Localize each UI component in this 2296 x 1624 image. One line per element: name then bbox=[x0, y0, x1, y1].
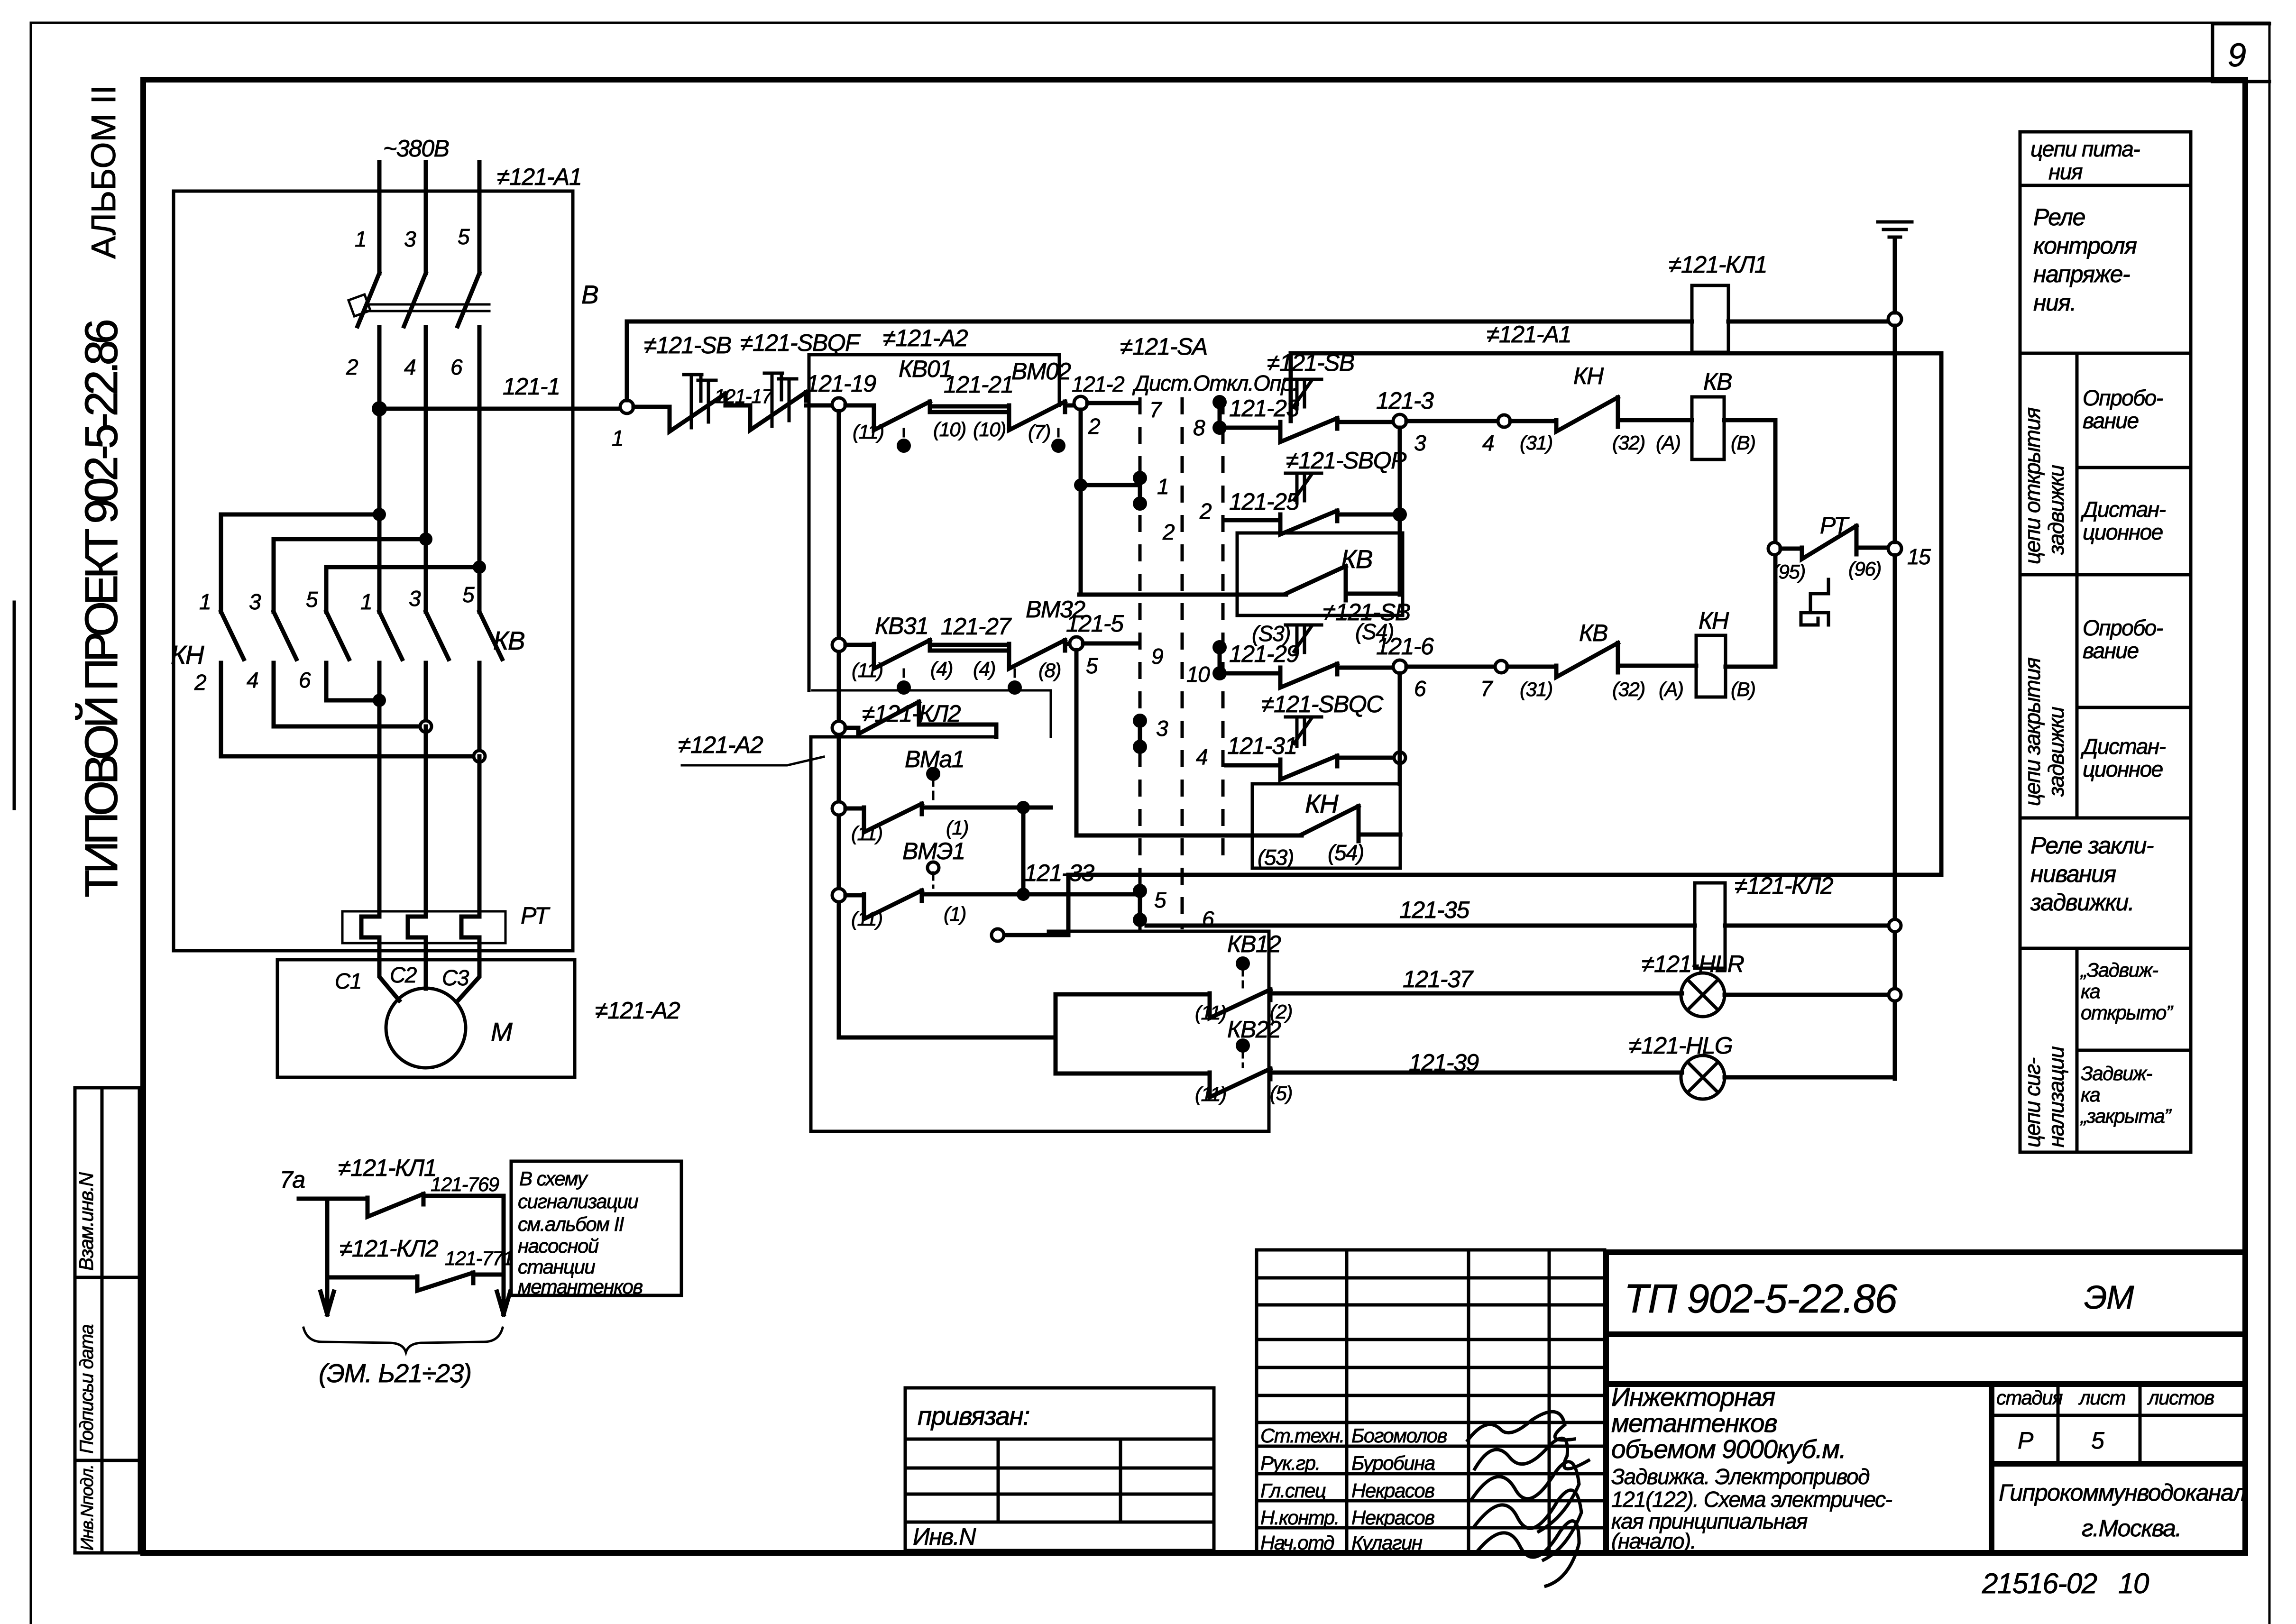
svg-text:(11): (11) bbox=[852, 659, 883, 681]
KN contact stubs top bbox=[221, 514, 326, 612]
node 121-1 tap bbox=[372, 401, 387, 416]
svg-text:Инв.Nподл.: Инв.Nподл. bbox=[77, 1465, 97, 1551]
svg-text:9: 9 bbox=[1151, 644, 1163, 669]
svg-text:Некрасов: Некрасов bbox=[1351, 1479, 1434, 1502]
small circuit rung 1 bbox=[299, 1197, 367, 1201]
svg-text:3: 3 bbox=[1156, 716, 1168, 741]
node 1 bbox=[620, 400, 634, 413]
svg-text:АЛЬБОМ II: АЛЬБОМ II bbox=[85, 85, 123, 259]
branch node 2 down bbox=[1079, 410, 1083, 595]
svg-text:КВ22: КВ22 bbox=[1227, 1016, 1281, 1043]
motor box bbox=[277, 960, 575, 1077]
breaker B blades bbox=[358, 273, 479, 335]
svg-text:г.Москва.: г.Москва. bbox=[2082, 1515, 2181, 1541]
node 121-2 bbox=[1074, 396, 1087, 410]
coil KN bbox=[1696, 635, 1726, 697]
svg-text:5: 5 bbox=[458, 224, 470, 249]
arrow right bbox=[497, 1292, 510, 1314]
svg-text:≠121-SA: ≠121-SA bbox=[1120, 333, 1207, 360]
svg-text:нализации: нализации bbox=[2044, 1046, 2068, 1147]
svg-text:Некрасов: Некрасов bbox=[1351, 1506, 1434, 1529]
fuse-switch 2 bbox=[750, 392, 806, 430]
svg-text:КВ: КВ bbox=[1703, 368, 1732, 395]
wire node1 to fuse1 bbox=[634, 405, 670, 409]
svg-text:метантенков: метантенков bbox=[1611, 1408, 1777, 1438]
junction marks bbox=[373, 694, 386, 707]
svg-text:Буробина: Буробина bbox=[1351, 1452, 1435, 1474]
svg-text:2: 2 bbox=[1088, 414, 1100, 439]
svg-text:1: 1 bbox=[355, 227, 366, 251]
svg-text:(11): (11) bbox=[851, 908, 882, 930]
svg-text:Кулагин: Кулагин bbox=[1351, 1532, 1423, 1554]
svg-text:(32): (32) bbox=[1612, 678, 1645, 700]
junction dots on phases bbox=[373, 508, 386, 521]
node3 riser bbox=[1398, 428, 1402, 595]
sheet number box bbox=[2213, 24, 2269, 82]
wire between fuses bbox=[726, 404, 750, 408]
svg-text:121-31: 121-31 bbox=[1227, 733, 1297, 759]
A2 box top rail bbox=[809, 355, 1059, 405]
svg-text:Гл.спец: Гл.спец bbox=[1260, 1479, 1326, 1502]
svg-text:Реле закли-: Реле закли- bbox=[2030, 832, 2154, 859]
svg-text:задвижки: задвижки bbox=[2044, 707, 2068, 797]
svg-text:(96): (96) bbox=[1848, 558, 1881, 580]
wire to node 121-5 bbox=[1065, 642, 1070, 646]
svg-text:ТП 902-5-22.86: ТП 902-5-22.86 bbox=[1624, 1276, 1898, 1321]
svg-text:РТ: РТ bbox=[521, 902, 551, 929]
thermal relay RT box bbox=[342, 911, 505, 943]
svg-text:задвижки.: задвижки. bbox=[2030, 889, 2134, 916]
svg-text:вание: вание bbox=[2083, 408, 2139, 433]
note box bbox=[511, 1161, 681, 1295]
scan edge artifact bbox=[13, 602, 16, 808]
svg-text:(11): (11) bbox=[1195, 1001, 1226, 1024]
KL2 aux contact bbox=[845, 702, 996, 737]
svg-text:≠121-SBQP: ≠121-SBQP bbox=[1286, 447, 1407, 474]
breaker B tie bar bbox=[366, 304, 489, 311]
node 121-5 bbox=[1070, 637, 1083, 650]
signature table grid bbox=[1257, 1250, 1605, 1553]
svg-text:„закрыта”: „закрыта” bbox=[2080, 1105, 2172, 1127]
wire 121-27 bbox=[930, 645, 1009, 651]
svg-text:цепи сиг-: цепи сиг- bbox=[2020, 1057, 2045, 1147]
svg-text:≠121-А2: ≠121-А2 bbox=[595, 997, 680, 1024]
coil KV bbox=[1692, 397, 1724, 459]
svg-text:4: 4 bbox=[404, 355, 415, 379]
svg-text:цепи открытия: цепи открытия bbox=[2020, 407, 2045, 564]
svg-text:(1): (1) bbox=[944, 903, 966, 925]
contact VM02 bbox=[1009, 402, 1065, 430]
svg-text:6: 6 bbox=[299, 668, 311, 692]
signature squiggles bbox=[1468, 1412, 1589, 1586]
svg-text:вание: вание bbox=[2083, 638, 2139, 663]
svg-text:(А): (А) bbox=[1659, 678, 1683, 700]
svg-text:≠121-КЛ2: ≠121-КЛ2 bbox=[1735, 872, 1834, 899]
svg-text:привязан:: привязан: bbox=[918, 1401, 1029, 1431]
svg-text:121-19: 121-19 bbox=[806, 370, 876, 397]
svg-text:ния.: ния. bbox=[2033, 289, 2076, 316]
svg-text:121-1: 121-1 bbox=[503, 373, 560, 400]
svg-text:КН: КН bbox=[1699, 607, 1729, 634]
svg-text:М: М bbox=[491, 1017, 513, 1046]
node 121-6 bbox=[1393, 660, 1406, 673]
svg-text:≠121-SB: ≠121-SB bbox=[1323, 599, 1410, 625]
svg-text:2: 2 bbox=[1162, 520, 1175, 544]
svg-text:(В): (В) bbox=[1731, 678, 1755, 700]
svg-text:ка: ка bbox=[2081, 980, 2100, 1002]
svg-text:(11): (11) bbox=[1195, 1083, 1226, 1105]
svg-text:(31): (31) bbox=[1520, 678, 1552, 700]
svg-text:5: 5 bbox=[306, 587, 318, 612]
rung 121-35 bbox=[1147, 924, 1888, 928]
svg-text:В: В bbox=[581, 280, 598, 309]
svg-text:≠121-А2: ≠121-А2 bbox=[678, 732, 763, 758]
svg-text:ТИПОВОЙ ПРОЕКТ 902-5-22.86: ТИПОВОЙ ПРОЕКТ 902-5-22.86 bbox=[75, 321, 127, 898]
contact VMa1 bbox=[845, 807, 864, 811]
svg-text:(8): (8) bbox=[1038, 659, 1061, 681]
right legend table frame bbox=[2020, 132, 2191, 1152]
svg-text:Рук.гр.: Рук.гр. bbox=[1260, 1452, 1320, 1474]
svg-text:121-39: 121-39 bbox=[1409, 1049, 1479, 1076]
svg-text:„Задвиж-: „Задвиж- bbox=[2080, 959, 2158, 981]
svg-text:(11): (11) bbox=[851, 822, 882, 844]
contact KV nc bbox=[1507, 665, 1556, 669]
svg-text:2: 2 bbox=[346, 355, 358, 379]
svg-text:9: 9 bbox=[2228, 37, 2246, 73]
svg-text:7: 7 bbox=[1149, 397, 1162, 422]
svg-text:8: 8 bbox=[1193, 415, 1205, 440]
svg-text:3: 3 bbox=[409, 586, 421, 611]
svg-text:≠121-SBQC: ≠121-SBQC bbox=[1261, 691, 1384, 717]
svg-text:3: 3 bbox=[249, 589, 261, 614]
KN upper cross wires bbox=[221, 514, 479, 567]
svg-text:Опробо-: Опробо- bbox=[2083, 385, 2163, 410]
svg-text:КВ12: КВ12 bbox=[1227, 931, 1281, 957]
svg-text:≠121-КЛ1: ≠121-КЛ1 bbox=[1669, 251, 1767, 278]
svg-text:объемом 9000куб.м.: объемом 9000куб.м. bbox=[1611, 1434, 1846, 1464]
motor M circle bbox=[386, 988, 466, 1068]
stadia table bbox=[1992, 1384, 2245, 1464]
svg-text:(54): (54) bbox=[1328, 840, 1364, 865]
svg-text:С2: С2 bbox=[390, 963, 417, 987]
svg-text:5: 5 bbox=[462, 582, 475, 607]
svg-text:121(122). Схема электричес-: 121(122). Схема электричес- bbox=[1611, 1487, 1892, 1512]
svg-text:Дистан-: Дистан- bbox=[2080, 497, 2166, 522]
riser node1 to top bus bbox=[625, 321, 629, 400]
right riser bbox=[1726, 420, 1775, 667]
legend rotated divider bbox=[2076, 353, 2079, 1152]
svg-text:5: 5 bbox=[1086, 653, 1098, 678]
phase lines mid bbox=[379, 335, 479, 612]
svg-text:2: 2 bbox=[1199, 499, 1212, 523]
svg-text:Задвиж-: Задвиж- bbox=[2081, 1062, 2153, 1084]
VMa1 contact circle bbox=[832, 802, 845, 815]
svg-text:≠121-SB: ≠121-SB bbox=[644, 332, 731, 358]
contact VM32 bbox=[1009, 640, 1065, 669]
svg-text:7: 7 bbox=[1480, 676, 1493, 701]
svg-text:КН: КН bbox=[171, 640, 204, 670]
SA dashed lines bbox=[1139, 397, 1142, 931]
left bottom strip table bbox=[75, 1088, 139, 1553]
svg-text:КН: КН bbox=[1305, 789, 1339, 818]
svg-text:1: 1 bbox=[199, 589, 211, 614]
contactor KV main contacts bbox=[379, 612, 502, 756]
svg-text:(4): (4) bbox=[973, 658, 995, 680]
wire to node 121-2 bbox=[1065, 404, 1074, 408]
svg-text:≠121-HLR: ≠121-HLR bbox=[1642, 951, 1744, 977]
node 121-3 bbox=[1393, 414, 1406, 428]
svg-text:4: 4 bbox=[1196, 744, 1207, 769]
svg-text:станции: станции bbox=[518, 1256, 595, 1278]
svg-text:ка: ка bbox=[2081, 1083, 2100, 1106]
rung 121-25 bbox=[1226, 518, 1280, 523]
svg-text:121-29: 121-29 bbox=[1229, 641, 1299, 667]
svg-text:метантенков: метантенков bbox=[518, 1275, 643, 1298]
svg-text:стадия: стадия bbox=[1996, 1386, 2063, 1409]
contact VME1 bbox=[845, 893, 864, 898]
contact KN nc bbox=[1510, 419, 1556, 423]
svg-text:5: 5 bbox=[2091, 1427, 2104, 1454]
svg-text:(7): (7) bbox=[1028, 421, 1050, 443]
svg-text:С3: С3 bbox=[442, 965, 469, 990]
svg-text:ния: ния bbox=[2048, 159, 2083, 184]
svg-text:3: 3 bbox=[1414, 431, 1426, 455]
svg-text:(95): (95) bbox=[1773, 560, 1805, 583]
wire 121-21 bbox=[930, 406, 1009, 412]
svg-text:4: 4 bbox=[1482, 431, 1494, 455]
RT heaters bbox=[361, 911, 479, 943]
stub node5 to SA bbox=[1083, 642, 1136, 646]
svg-text:121-35: 121-35 bbox=[1399, 897, 1469, 923]
svg-text:(10): (10) bbox=[933, 418, 966, 440]
svg-text:(53): (53) bbox=[1258, 845, 1294, 870]
A2 box left rail bbox=[808, 355, 811, 690]
svg-text:(32): (32) bbox=[1612, 431, 1645, 454]
rung A wire node3 to circle 4 bbox=[1406, 419, 1497, 423]
title block outline bbox=[1606, 1252, 2245, 1553]
rung from node5 through KN box bbox=[1076, 650, 1302, 835]
VME1 contact circle bbox=[832, 889, 845, 902]
rung through KV box bbox=[1079, 593, 1286, 597]
svg-text:121-2: 121-2 bbox=[1072, 372, 1124, 396]
svg-text:сигнализации: сигнализации bbox=[518, 1190, 638, 1212]
svg-text:10: 10 bbox=[1186, 662, 1210, 687]
svg-text:1: 1 bbox=[360, 589, 372, 614]
svg-text:напряже-: напряже- bbox=[2033, 261, 2130, 287]
contact KV01 bbox=[874, 402, 930, 430]
svg-text:В схему: В схему bbox=[519, 1167, 588, 1190]
KN S3S4 box bbox=[1252, 784, 1400, 868]
power circuit enclosure box A1 bbox=[174, 191, 573, 951]
small circuit left drop bbox=[325, 1199, 330, 1300]
svg-text:задвижки: задвижки bbox=[2044, 465, 2068, 555]
svg-text:(1): (1) bbox=[946, 817, 968, 839]
SA contact dots pos1 bbox=[1133, 471, 1147, 485]
svg-text:контроля: контроля bbox=[2033, 232, 2137, 259]
svg-text:КН: КН bbox=[1573, 363, 1604, 389]
svg-text:≠121-А2: ≠121-А2 bbox=[883, 325, 968, 351]
svg-text:≠121-А1: ≠121-А1 bbox=[497, 164, 581, 190]
svg-text:см.альбом II: см.альбом II bbox=[518, 1213, 625, 1235]
breaker B handle square bbox=[349, 294, 370, 316]
short link bbox=[998, 933, 1068, 937]
RT heater hook bbox=[1801, 579, 1828, 625]
button rung 121-29 bbox=[1226, 671, 1280, 676]
lower cross wires bbox=[221, 700, 479, 756]
KL2 aux contact circle bbox=[832, 721, 845, 734]
svg-text:121-25: 121-25 bbox=[1229, 488, 1299, 515]
svg-text:КВ: КВ bbox=[1579, 620, 1607, 646]
motor leads bbox=[379, 943, 479, 1000]
rung KV12 bbox=[1056, 992, 1210, 997]
svg-text:Взам.инв.N: Взам.инв.N bbox=[75, 1172, 97, 1271]
svg-text:(5): (5) bbox=[1270, 1082, 1292, 1104]
phase drops to RT bbox=[379, 700, 479, 911]
feed wire to KV box bbox=[839, 1036, 1056, 1040]
rung 121-31 bbox=[1226, 763, 1280, 768]
svg-text:≠121-А1: ≠121-А1 bbox=[1487, 321, 1571, 348]
svg-text:Богомолов: Богомолов bbox=[1351, 1424, 1447, 1447]
svg-text:15: 15 bbox=[1907, 544, 1931, 569]
arrow left bbox=[321, 1292, 334, 1314]
riser VMa1 out bbox=[1021, 807, 1026, 894]
brace bbox=[303, 1328, 503, 1352]
svg-text:лист: лист bbox=[2078, 1386, 2126, 1409]
svg-text:Ст.техн.: Ст.техн. bbox=[1260, 1424, 1344, 1447]
svg-text:(начало).: (начало). bbox=[1611, 1529, 1696, 1553]
svg-text:7а: 7а bbox=[280, 1166, 305, 1193]
small circuit rung 2 bbox=[327, 1275, 417, 1280]
svg-text:1: 1 bbox=[612, 426, 623, 450]
svg-text:Нач.отд: Нач.отд bbox=[1260, 1532, 1334, 1554]
KV S3S4 box bbox=[1237, 533, 1403, 615]
svg-text:5: 5 bbox=[1154, 888, 1166, 912]
svg-text:КВ31: КВ31 bbox=[875, 613, 928, 639]
SA dots pos5 bbox=[1133, 884, 1147, 898]
right bus vertical bbox=[1893, 326, 1897, 1079]
svg-text:(ЭМ. Ь21÷23): (ЭМ. Ь21÷23) bbox=[319, 1358, 471, 1388]
svg-text:121-6: 121-6 bbox=[1376, 633, 1434, 660]
svg-text:121-771: 121-771 bbox=[445, 1247, 513, 1269]
rung KV31 start circle bbox=[832, 638, 845, 651]
svg-text:ВМ02: ВМ02 bbox=[1011, 358, 1071, 385]
legend row lines bbox=[2020, 185, 2191, 1050]
svg-text:2: 2 bbox=[194, 670, 206, 695]
svg-text:нивания: нивания bbox=[2030, 861, 2116, 887]
svg-text:Н.контр.: Н.контр. bbox=[1260, 1506, 1339, 1529]
wire 121-1 bbox=[379, 407, 620, 411]
wire A1 bus bbox=[1068, 353, 1941, 935]
top control bus bbox=[627, 320, 1692, 324]
node 15 bbox=[1888, 542, 1901, 555]
svg-text:Дистан-: Дистан- bbox=[2080, 734, 2166, 759]
svg-text:Опробо-: Опробо- bbox=[2083, 615, 2163, 640]
svg-text:≠121-SBQF: ≠121-SBQF bbox=[740, 330, 861, 356]
svg-text:≠121-КЛ1: ≠121-КЛ1 bbox=[338, 1155, 436, 1181]
svg-text:ционное: ционное bbox=[2083, 757, 2163, 781]
svg-text:121-37: 121-37 bbox=[1403, 966, 1474, 992]
rung KV01 wire bbox=[845, 404, 874, 408]
svg-text:6: 6 bbox=[1414, 676, 1426, 701]
SA dots row 121-29 bbox=[1212, 640, 1227, 654]
stub node2 to SA bbox=[1087, 401, 1137, 405]
node6 riser bbox=[1398, 673, 1402, 784]
svg-text:1: 1 bbox=[1157, 474, 1168, 499]
SA dots row 121-23 bbox=[1212, 395, 1227, 409]
svg-text:ционное: ционное bbox=[2083, 520, 2163, 544]
svg-text:(4): (4) bbox=[930, 658, 953, 680]
svg-text:ЭМ: ЭМ bbox=[2084, 1279, 2134, 1316]
svg-text:открыто”: открыто” bbox=[2081, 1001, 2174, 1024]
svg-text:Инв.N: Инв.N bbox=[913, 1523, 976, 1550]
svg-text:6: 6 bbox=[450, 355, 463, 379]
left control bus bbox=[837, 411, 841, 1037]
lamp HLG bbox=[1681, 1055, 1725, 1099]
svg-text:Инжекторная: Инжекторная bbox=[1611, 1382, 1775, 1412]
svg-text:цепи пита-: цепи пита- bbox=[2030, 137, 2140, 161]
svg-text:(В): (В) bbox=[1731, 431, 1755, 454]
rung B node6 to circle 7 bbox=[1406, 665, 1495, 669]
svg-text:~380В: ~380В bbox=[383, 135, 449, 162]
svg-text:≠121-КЛ2: ≠121-КЛ2 bbox=[340, 1235, 439, 1262]
svg-text:Гипрокоммунводоканал: Гипрокоммунводоканал bbox=[1999, 1479, 2246, 1506]
svg-text:≠121-HLG: ≠121-HLG bbox=[1629, 1032, 1732, 1059]
svg-text:(11): (11) bbox=[853, 421, 884, 443]
contact KV31 bbox=[874, 640, 930, 669]
contactor KN main contacts bbox=[221, 612, 349, 756]
privyazan table bbox=[905, 1388, 1214, 1551]
svg-text:Реле: Реле bbox=[2033, 204, 2085, 230]
wire fuse2 to node 19 bbox=[806, 404, 832, 408]
svg-text:121-27: 121-27 bbox=[941, 613, 1012, 640]
svg-text:21516-02 10: 21516-02 10 bbox=[1982, 1568, 2149, 1599]
fuse-switch 1 bbox=[670, 394, 726, 431]
lamp HLR bbox=[1681, 973, 1725, 1017]
RT trip contact bbox=[1768, 542, 1781, 555]
svg-text:(А): (А) bbox=[1656, 431, 1681, 454]
svg-text:4: 4 bbox=[247, 668, 258, 692]
svg-text:С1: С1 bbox=[335, 969, 361, 993]
linkage line bbox=[812, 690, 1051, 737]
phase lines top bbox=[379, 162, 479, 273]
ground bbox=[1893, 239, 1897, 312]
branch to SA pos1 bbox=[1081, 483, 1137, 487]
svg-text:РТ: РТ bbox=[1820, 512, 1850, 539]
svg-text:(10): (10) bbox=[973, 418, 1006, 440]
relay KL2 coil bbox=[1695, 883, 1725, 968]
button rung 121-23 bbox=[1226, 426, 1280, 430]
svg-text:121-5: 121-5 bbox=[1066, 610, 1124, 637]
svg-text:121-21: 121-21 bbox=[944, 371, 1013, 398]
svg-text:КВ: КВ bbox=[493, 626, 524, 655]
node 121-19 bbox=[832, 398, 845, 411]
svg-text:Подписьи дата: Подписьи дата bbox=[76, 1325, 97, 1454]
A2 box B outline bbox=[811, 737, 1269, 1131]
svg-text:насосной: насосной bbox=[518, 1235, 599, 1257]
svg-text:Задвижка. Электропривод: Задвижка. Электропривод bbox=[1611, 1464, 1869, 1489]
svg-text:листов: листов bbox=[2147, 1386, 2214, 1409]
svg-text:цепи закрытия: цепи закрытия bbox=[2020, 658, 2045, 806]
svg-text:(31): (31) bbox=[1520, 431, 1552, 454]
svg-text:121-3: 121-3 bbox=[1376, 387, 1434, 414]
svg-text:Р: Р bbox=[2018, 1427, 2034, 1454]
svg-text:121-769: 121-769 bbox=[431, 1173, 499, 1195]
svg-text:3: 3 bbox=[404, 227, 416, 251]
